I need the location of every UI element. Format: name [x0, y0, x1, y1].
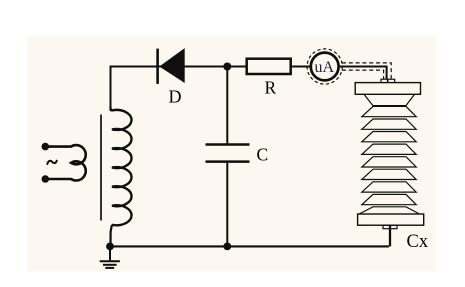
- svg-text:R: R: [265, 77, 277, 97]
- svg-text:uA: uA: [315, 59, 335, 76]
- svg-text:Cx: Cx: [407, 232, 429, 252]
- svg-text:C: C: [257, 144, 269, 164]
- svg-text:D: D: [169, 87, 182, 107]
